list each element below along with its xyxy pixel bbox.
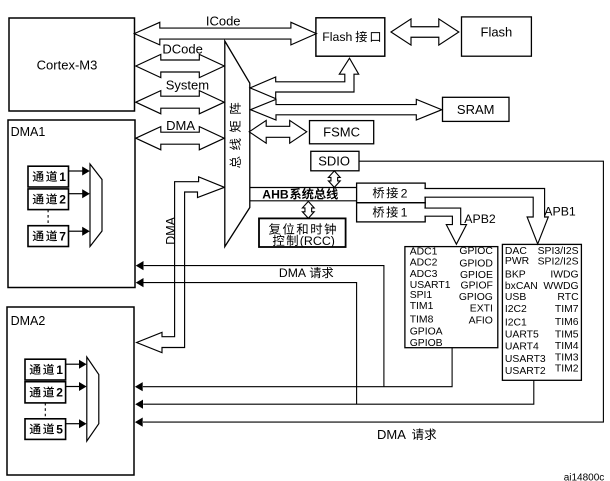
svg-text:RTC: RTC — [557, 292, 579, 303]
svg-text:GPIOC: GPIOC — [459, 246, 493, 257]
svg-text:7: 7 — [59, 229, 66, 243]
arrowhead channel 2 — [82, 189, 90, 198]
svg-text:DMA2: DMA2 — [11, 314, 46, 328]
svg-text:FSMC: FSMC — [323, 125, 360, 140]
svg-text:EXTI: EXTI — [470, 303, 493, 314]
block APB2 peripherals — [405, 247, 498, 348]
arrowhead channel 7 — [82, 227, 90, 236]
bus arrow bridge2 to APB1 — [424, 189, 548, 244]
svg-text:I2C1: I2C1 — [505, 317, 527, 328]
arrowhead APB2 request into DMA2 — [135, 382, 143, 391]
block RCC (复位和时钟控制) — [259, 218, 346, 247]
bus arrow: DMA2 to bus matrix (bidirectional L-shape) — [137, 177, 225, 353]
svg-text:TIM5: TIM5 — [555, 329, 579, 340]
label 总线矩阵 char 矩 — [230, 121, 241, 132]
block SDIO — [311, 151, 359, 171]
wire DMA2 channel 1 to mux — [66, 363, 80, 365]
svg-text:bxCAN: bxCAN — [505, 281, 538, 292]
label 通道2 — [33, 194, 44, 205]
wire APB2 request branch to DMA1 — [144, 266, 384, 387]
svg-text:APB1: APB1 — [544, 204, 576, 218]
arrowhead channel 1 — [79, 360, 87, 369]
svg-text:PWR: PWR — [505, 256, 530, 267]
svg-text:IWDG: IWDG — [550, 269, 578, 280]
svg-text:TIM6: TIM6 — [555, 317, 579, 328]
svg-text:TIM4: TIM4 — [555, 341, 579, 352]
svg-text:GPIOG: GPIOG — [459, 292, 493, 303]
bus arrow bus matrix to FSMC — [249, 120, 307, 143]
label 通道2 — [30, 387, 41, 398]
svg-text:DMA: DMA — [377, 427, 406, 442]
wire APB2 DMA request down — [143, 348, 452, 387]
svg-text:TIM2: TIM2 — [555, 364, 579, 375]
bus arrow Flash interface to Flash — [391, 19, 459, 45]
svg-text:Flash: Flash — [481, 25, 513, 40]
svg-text:AHB: AHB — [262, 187, 289, 201]
svg-text:BKP: BKP — [505, 269, 526, 280]
svg-text:USART2: USART2 — [505, 366, 546, 377]
arrowhead APB1 request into DMA1 — [136, 278, 144, 287]
wire DMA1 channel 1 to mux — [69, 170, 84, 172]
arrowhead APB2 request into DMA1 — [136, 261, 144, 270]
wire AHB bus lower line — [250, 200, 357, 202]
svg-text:DMA: DMA — [166, 118, 195, 133]
label 通道1 — [33, 171, 44, 182]
wire APB1 request branch to DMA1 — [144, 283, 357, 405]
svg-text:TIM8: TIM8 — [410, 314, 434, 325]
svg-text:ADC1: ADC1 — [410, 247, 438, 258]
svg-text:1: 1 — [56, 363, 63, 377]
svg-text:1: 1 — [401, 206, 408, 220]
block DMA2 channel 1 — [25, 359, 66, 380]
bus arrow bus matrix to SRAM — [251, 99, 442, 120]
svg-text:SPI1: SPI1 — [410, 290, 433, 301]
block Cortex-M3 — [9, 18, 135, 111]
label 桥接 2 — [373, 187, 385, 198]
block DMA2 channel 5 — [25, 419, 66, 440]
svg-text:GPIOB: GPIOB — [410, 338, 443, 349]
block DMA1 — [8, 120, 135, 288]
svg-text:GPIOD: GPIOD — [459, 259, 493, 270]
block SRAM — [443, 97, 510, 121]
svg-text:APB2: APB2 — [464, 212, 496, 226]
label 通道7 — [33, 231, 44, 242]
svg-text:SDIO: SDIO — [318, 153, 350, 168]
svg-text:ICode: ICode — [206, 14, 241, 29]
label 通道1 — [30, 364, 41, 375]
label 复位和时钟 — [269, 223, 281, 234]
arrowhead APB1 request into DMA2 — [135, 400, 143, 409]
svg-text:GPIOF: GPIOF — [461, 281, 493, 292]
mux DMA1 — [90, 164, 102, 247]
svg-text:2: 2 — [56, 386, 63, 400]
arrowhead channel 2 — [79, 382, 87, 391]
svg-text:DCode: DCode — [162, 42, 202, 57]
svg-text:2: 2 — [59, 192, 66, 206]
svg-text:(RCC): (RCC) — [300, 234, 335, 248]
arrowhead SDIO request into DMA2 — [135, 418, 143, 427]
svg-text:ADC2: ADC2 — [410, 258, 438, 269]
svg-text:SPI2/I2S: SPI2/I2S — [538, 256, 579, 267]
svg-text:Flash: Flash — [322, 30, 352, 44]
label 通道5 — [30, 424, 41, 435]
svg-text:I2C2: I2C2 — [505, 304, 527, 315]
block DMA1 channel 7 — [28, 226, 69, 247]
svg-text:2: 2 — [401, 186, 408, 200]
bus arrow ICode — [134, 22, 316, 45]
bus arrow SDIO to AHB — [328, 171, 340, 188]
wire SDIO DMA request (right edge route) — [143, 161, 603, 422]
arrowhead channel 5 — [79, 419, 87, 428]
svg-text:TIM3: TIM3 — [555, 352, 579, 363]
svg-text:Cortex-M3: Cortex-M3 — [37, 58, 98, 73]
block FSMC — [310, 121, 374, 144]
bus arrow System — [136, 91, 225, 114]
svg-text:DMA1: DMA1 — [11, 125, 46, 139]
svg-text:1: 1 — [59, 170, 66, 184]
label 控制(RCC) — [273, 235, 285, 246]
svg-text:5: 5 — [56, 422, 63, 436]
block Flash interface — [316, 18, 385, 56]
bus matrix block — [225, 41, 250, 247]
bus arrow AHB to RCC — [302, 201, 314, 218]
svg-text:UART5: UART5 — [505, 330, 539, 341]
wire AHB bus upper line — [250, 187, 357, 189]
mux DMA2 — [87, 357, 99, 441]
svg-text:ai14800c: ai14800c — [564, 472, 605, 481]
svg-text:ADC3: ADC3 — [410, 269, 438, 280]
svg-text:TIM7: TIM7 — [555, 304, 579, 315]
block DMA2 — [7, 307, 134, 475]
svg-text:GPIOA: GPIOA — [410, 326, 443, 337]
bus arrow bus matrix to Flash interface (L-shape) — [250, 58, 359, 98]
wire APB1 DMA request down — [143, 380, 534, 404]
block bridge 2 (桥接2) — [357, 183, 426, 203]
bus arrow DCode — [136, 54, 225, 77]
svg-text:USART3: USART3 — [505, 354, 546, 365]
svg-text:TIM1: TIM1 — [410, 301, 434, 312]
svg-text:AFIO: AFIO — [469, 316, 493, 327]
dashed line DMA1 channels — [47, 210, 49, 226]
svg-text:DMA: DMA — [279, 266, 307, 280]
label 总线矩阵 char 线 — [229, 139, 240, 150]
bus arrow bridge1 to APB2 — [424, 208, 466, 244]
svg-text:WWDG: WWDG — [543, 281, 578, 292]
block DMA1 channel 2 — [28, 189, 69, 210]
wire DMA1 channel 2 to mux — [69, 193, 84, 195]
svg-text:SRAM: SRAM — [457, 102, 495, 117]
block Flash — [462, 17, 532, 56]
dashed line DMA2 channels — [44, 403, 46, 419]
wire DMA2 channel 5 to mux — [66, 423, 80, 425]
bus arrow DMA (DMA1 to bus matrix) — [136, 127, 225, 150]
svg-text:System: System — [166, 78, 209, 93]
label 总线矩阵 char 总 — [230, 157, 241, 168]
arrowhead channel 1 — [82, 167, 90, 176]
wire DMA1 channel 7 to mux — [69, 230, 84, 232]
svg-text:USB: USB — [505, 292, 526, 303]
svg-text:UART4: UART4 — [505, 342, 539, 353]
block DMA1 channel 1 — [28, 166, 69, 187]
wire DMA2 channel 2 to mux — [66, 386, 80, 388]
block APB1 peripherals — [502, 244, 581, 380]
block DMA2 channel 2 — [25, 382, 66, 403]
label 总线矩阵 char 阵 — [229, 103, 240, 114]
block bridge 1 (桥接1) — [357, 203, 426, 222]
svg-text:DMA: DMA — [164, 216, 178, 244]
label 桥接 1 — [373, 206, 385, 217]
